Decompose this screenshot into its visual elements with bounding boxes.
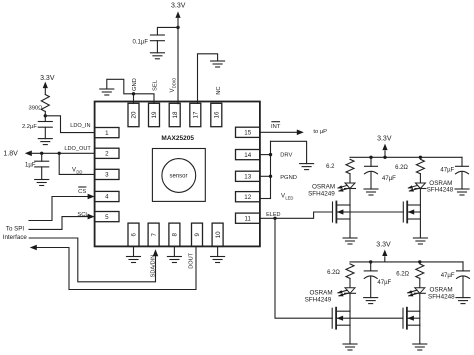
svg-text:DD: DD xyxy=(76,170,82,175)
svg-text:Interface: Interface xyxy=(3,234,28,241)
svg-text:6.2Ω: 6.2Ω xyxy=(327,270,340,276)
svg-text:ELED: ELED xyxy=(266,212,280,218)
svg-text:14: 14 xyxy=(244,152,251,159)
svg-text:47µF: 47µF xyxy=(382,176,396,182)
svg-text:DDIO: DDIO xyxy=(172,77,177,88)
svg-text:9: 9 xyxy=(194,233,201,237)
svg-text:1.8V: 1.8V xyxy=(3,150,18,157)
svg-text:2.2µF: 2.2µF xyxy=(22,124,37,130)
svg-text:SDA/DIN: SDA/DIN xyxy=(151,255,157,278)
svg-text:13: 13 xyxy=(244,174,251,181)
svg-text:3: 3 xyxy=(105,172,109,179)
svg-text:20: 20 xyxy=(131,111,138,118)
svg-text:MAX25205: MAX25205 xyxy=(161,135,194,142)
svg-text:3.3V: 3.3V xyxy=(40,75,55,82)
svg-text:6: 6 xyxy=(131,233,138,237)
svg-text:sensor: sensor xyxy=(169,174,187,180)
svg-text:OSRAM: OSRAM xyxy=(310,289,333,296)
svg-text:11: 11 xyxy=(244,215,251,222)
svg-text:3.3V: 3.3V xyxy=(376,241,391,248)
svg-text:SCL: SCL xyxy=(77,212,89,218)
svg-text:4: 4 xyxy=(105,194,109,201)
svg-text:DRV: DRV xyxy=(280,153,292,159)
svg-text:GND: GND xyxy=(132,78,138,91)
svg-text:SEL: SEL xyxy=(153,79,159,91)
svg-text:OSRAM: OSRAM xyxy=(430,286,453,293)
svg-text:to µP: to µP xyxy=(313,129,327,135)
svg-text:SFH4248: SFH4248 xyxy=(428,293,455,300)
svg-text:10: 10 xyxy=(215,231,222,238)
svg-text:6.2: 6.2 xyxy=(326,164,335,170)
svg-text:17: 17 xyxy=(193,111,200,118)
svg-text:18: 18 xyxy=(172,111,179,118)
svg-text:LDO_OUT: LDO_OUT xyxy=(64,146,91,152)
svg-text:To SPI: To SPI xyxy=(6,225,25,232)
svg-text:19: 19 xyxy=(151,111,158,118)
svg-text:7: 7 xyxy=(151,233,158,237)
svg-text:2: 2 xyxy=(105,151,109,158)
svg-text:390Ω: 390Ω xyxy=(28,105,43,111)
svg-text:LED: LED xyxy=(285,195,293,200)
svg-text:1: 1 xyxy=(105,130,109,137)
svg-text:SFH4249: SFH4249 xyxy=(305,297,332,304)
svg-text:47µF: 47µF xyxy=(440,168,454,174)
svg-text:LDO_IN: LDO_IN xyxy=(70,123,90,129)
svg-text:1µF: 1µF xyxy=(25,163,36,169)
svg-text:0.1µF: 0.1µF xyxy=(133,39,149,45)
svg-text:47µF: 47µF xyxy=(441,273,455,279)
svg-text:16: 16 xyxy=(214,111,221,118)
svg-text:PGND: PGND xyxy=(280,175,297,181)
svg-text:3.3V: 3.3V xyxy=(171,2,186,9)
svg-text:47µF: 47µF xyxy=(377,280,391,286)
svg-text:8: 8 xyxy=(172,233,179,237)
svg-text:6.2Ω: 6.2Ω xyxy=(396,271,409,277)
svg-text:3.3V: 3.3V xyxy=(377,135,392,142)
svg-text:NC: NC xyxy=(216,86,222,94)
svg-text:SFH4249: SFH4249 xyxy=(308,191,335,198)
svg-text:INT: INT xyxy=(271,124,281,130)
svg-text:SFH4248: SFH4248 xyxy=(427,187,454,194)
svg-text:5: 5 xyxy=(105,214,109,221)
svg-text:12: 12 xyxy=(244,194,251,201)
svg-text:DOUT: DOUT xyxy=(188,252,194,268)
svg-text:CS: CS xyxy=(78,189,86,195)
svg-text:15: 15 xyxy=(244,130,251,137)
svg-text:6.2Ω: 6.2Ω xyxy=(395,165,408,171)
